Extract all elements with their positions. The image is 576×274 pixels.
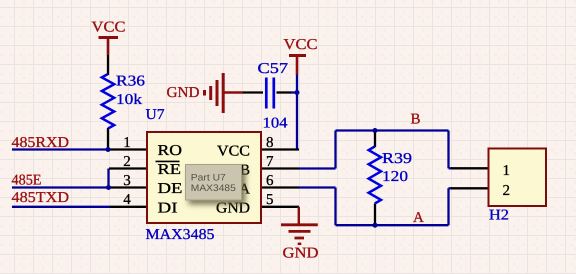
svg-text:MAX3485: MAX3485 [191, 183, 236, 194]
svg-text:VCC: VCC [217, 143, 250, 159]
svg-text:2: 2 [123, 154, 131, 170]
svg-text:DI: DI [158, 200, 178, 216]
svg-text:2: 2 [503, 183, 511, 199]
svg-text:104: 104 [263, 116, 289, 132]
svg-text:B: B [411, 112, 421, 128]
svg-text:1: 1 [503, 163, 511, 179]
svg-text:8: 8 [266, 135, 274, 151]
svg-text:120: 120 [382, 169, 408, 185]
svg-text:485RXD: 485RXD [12, 135, 70, 151]
svg-text:GND: GND [283, 245, 319, 261]
svg-text:RE: RE [158, 162, 182, 178]
svg-text:7: 7 [266, 154, 274, 170]
svg-text:485E: 485E [12, 173, 42, 189]
svg-text:C57: C57 [258, 61, 289, 77]
svg-text:A: A [413, 210, 424, 226]
svg-text:U7: U7 [146, 107, 166, 123]
svg-text:VCC: VCC [92, 20, 126, 36]
svg-text:VCC: VCC [284, 37, 318, 53]
svg-text:MAX3485: MAX3485 [146, 227, 215, 243]
svg-text:GND: GND [167, 85, 200, 101]
svg-text:1: 1 [123, 135, 131, 151]
svg-text:DE: DE [158, 181, 183, 197]
svg-text:4: 4 [123, 192, 131, 208]
svg-text:H2: H2 [489, 207, 509, 223]
svg-text:R39: R39 [382, 151, 412, 167]
svg-text:5: 5 [266, 192, 274, 208]
svg-text:RO: RO [158, 143, 183, 159]
svg-text:R36: R36 [116, 74, 146, 90]
svg-text:Part U7: Part U7 [191, 172, 226, 183]
svg-text:6: 6 [266, 173, 274, 189]
svg-text:3: 3 [123, 173, 131, 189]
svg-text:485TXD: 485TXD [12, 190, 70, 206]
svg-text:10k: 10k [116, 92, 143, 108]
